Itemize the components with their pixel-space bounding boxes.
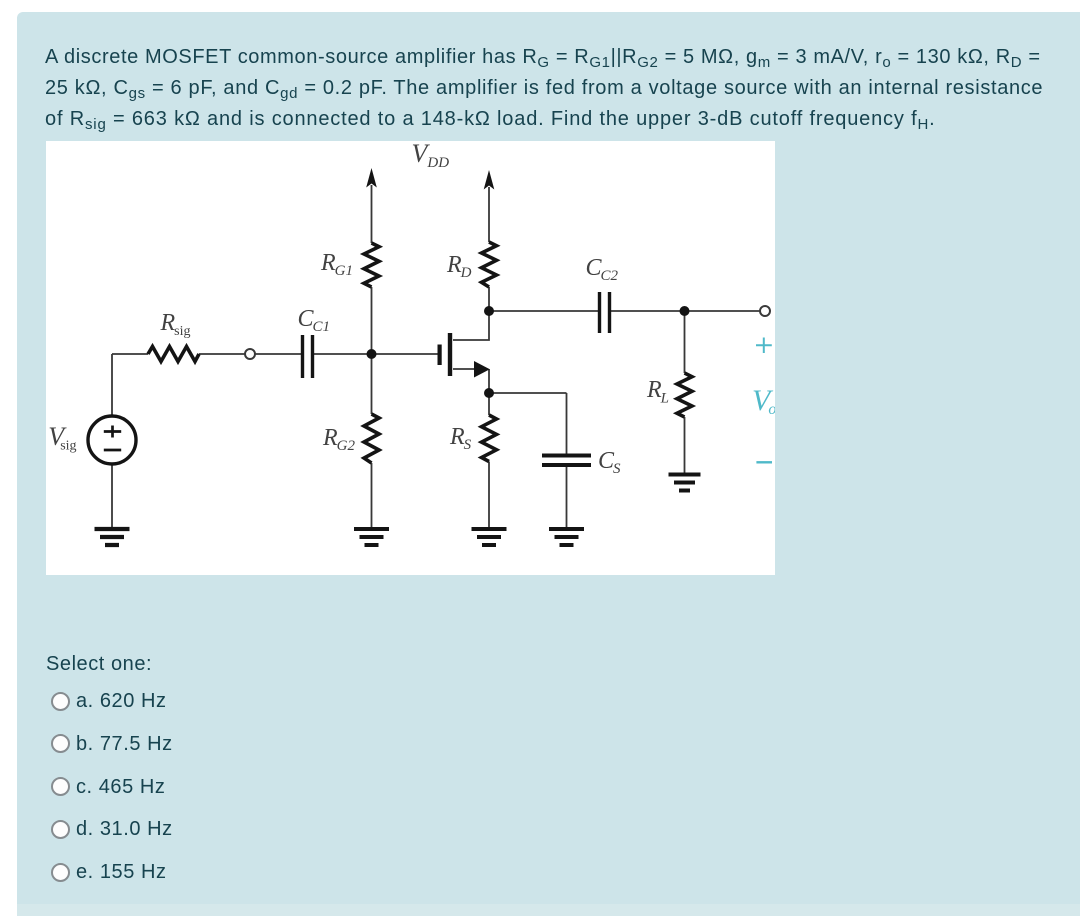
question text (45, 42, 1065, 135)
ground: under RL (669, 475, 701, 491)
svg-text:Vo: Vo (752, 384, 775, 418)
capacitor CS (542, 456, 591, 466)
option b (51, 733, 173, 756)
ground: under CS (549, 529, 584, 545)
option a (51, 690, 167, 713)
node: open input terminal (245, 349, 255, 359)
resistor RG1 (364, 243, 379, 287)
wire: output horizontal (489, 310, 760, 312)
ground: under RS (472, 529, 507, 545)
label minus (756, 461, 772, 463)
wire: source lead (453, 369, 489, 393)
resistor RS (482, 415, 497, 462)
ground: under RG2 (354, 529, 389, 545)
svg-text:Vsig: Vsig (48, 422, 76, 454)
wire: main input horizontal (112, 353, 438, 355)
resistor RL (677, 373, 692, 417)
svg-text:RD: RD (446, 252, 472, 281)
node: open output terminal (760, 306, 770, 316)
VDD arrow right (484, 170, 495, 190)
capacitor CC1 (303, 335, 313, 378)
resistor Rsig (148, 347, 199, 362)
svg-text:RG2: RG2 (322, 425, 356, 454)
svg-text:RL: RL (646, 377, 669, 407)
transistor Q1 source arrowhead (474, 361, 490, 378)
resistor RG2 (364, 414, 379, 463)
wire: drain lead (453, 311, 489, 340)
VDD arrow left (366, 168, 377, 188)
select one (46, 653, 152, 676)
svg-text:RG1: RG1 (320, 250, 353, 279)
option c (51, 776, 165, 799)
capacitor CC2 (600, 292, 610, 333)
wire: RL branch (684, 311, 686, 473)
svg-text:Rsig: Rsig (160, 310, 191, 339)
wire: RD/drain vertical (488, 187, 490, 311)
node: gate junction (367, 349, 377, 359)
node: source junction (484, 388, 494, 398)
svg-text:RS: RS (449, 424, 472, 453)
svg-text:VDD: VDD (412, 141, 450, 171)
circuit image (46, 141, 775, 575)
transistor Q1 channel bar (448, 333, 452, 376)
transistor Q1 gate bar (438, 345, 442, 366)
node: drain junction (484, 306, 494, 316)
svg-text:CS: CS (598, 448, 621, 477)
wire: RG1/RG2 vertical (371, 185, 373, 528)
label plus (756, 338, 772, 354)
wire: Vsig branch vertical (111, 354, 113, 528)
node: output junction (680, 306, 690, 316)
svg-text:CC1: CC1 (298, 306, 331, 335)
ground: under Vsig (95, 529, 130, 545)
svg-text:CC2: CC2 (586, 255, 619, 284)
wire: CS branch (566, 393, 568, 528)
source Vsig (88, 416, 136, 464)
resistor RD (482, 242, 497, 287)
option e (51, 861, 167, 884)
wire: source node branches (489, 393, 567, 528)
option d (51, 818, 173, 841)
